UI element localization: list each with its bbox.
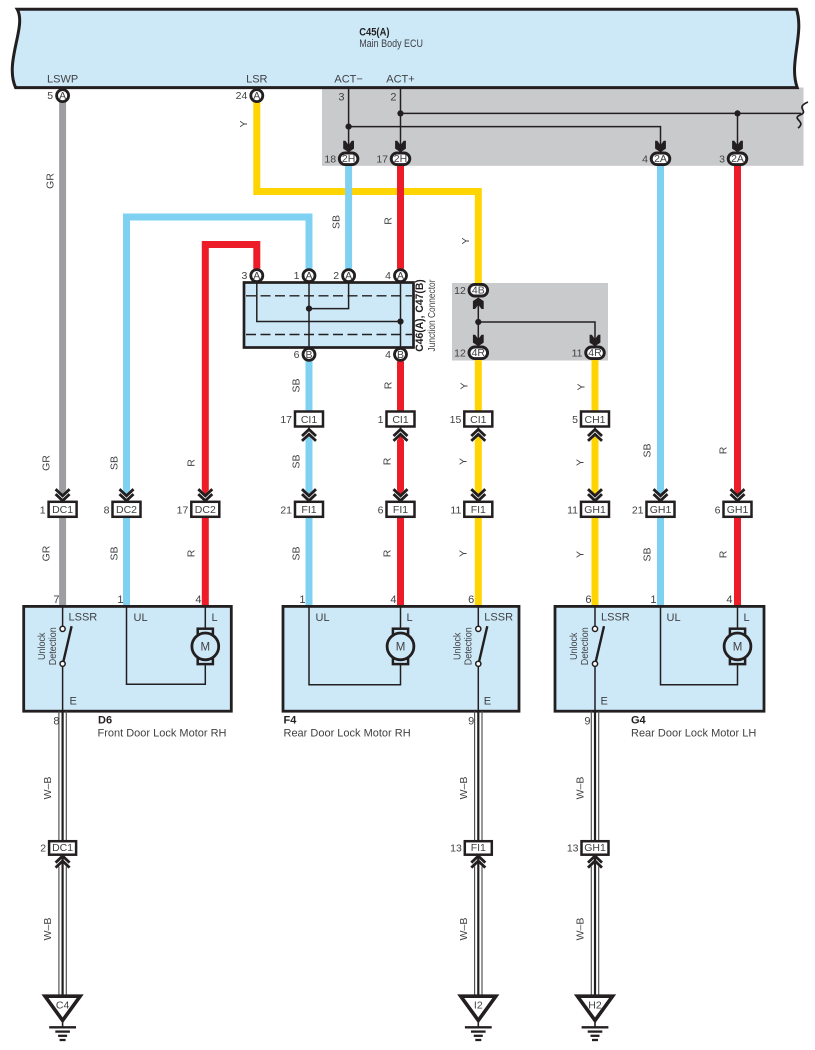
svg-text:A: A xyxy=(59,90,66,102)
connector chevrons 17 CI1 xyxy=(306,436,313,441)
wire W-B from 13 GH1 to ground H2 xyxy=(591,867,598,997)
svg-text:LSSR: LSSR xyxy=(484,612,513,624)
wire Y from 11 FI1 to motor F4 xyxy=(475,516,482,606)
svg-text:SB: SB xyxy=(642,443,654,457)
wire 4B to 4R vertical xyxy=(477,301,479,340)
svg-text:DC2: DC2 xyxy=(116,504,137,516)
svg-text:4: 4 xyxy=(642,153,648,165)
svg-text:DC2: DC2 xyxy=(195,504,216,516)
junction internal wire 4A to 4B xyxy=(400,284,402,347)
svg-text:15: 15 xyxy=(450,414,462,426)
svg-text:Y: Y xyxy=(574,551,586,558)
connector arrow into 4 2A xyxy=(655,141,666,153)
connector arrow into 12 4B xyxy=(473,298,484,310)
connector 8 DC2 xyxy=(104,502,141,517)
connector 1 CI1 xyxy=(378,412,415,427)
wire R from DC2 to motor D6 xyxy=(202,516,209,606)
svg-text:B: B xyxy=(397,349,404,361)
harness shading 2H/2A connector area xyxy=(322,88,804,166)
wire ACT- branch to 4 2A xyxy=(349,127,661,147)
ECU block C45(A) Main Body ECU xyxy=(12,9,799,87)
svg-text:1: 1 xyxy=(40,504,46,516)
svg-text:A: A xyxy=(305,270,312,282)
ECU pin 5 A LSWP xyxy=(47,90,68,103)
unlock detection switch F4 xyxy=(476,606,488,711)
ground I2 xyxy=(461,996,496,1040)
connector 5 CH1 xyxy=(572,412,609,427)
junction pin 1 A xyxy=(294,270,315,283)
svg-text:21: 21 xyxy=(280,504,292,516)
svg-text:L: L xyxy=(744,612,750,624)
svg-text:Y: Y xyxy=(574,459,586,466)
connector 4 2A xyxy=(642,153,670,165)
svg-text:ACT+: ACT+ xyxy=(386,74,414,86)
svg-text:3: 3 xyxy=(719,153,725,165)
svg-text:C46(A), C47(B): C46(A), C47(B) xyxy=(414,279,426,352)
svg-text:Y: Y xyxy=(238,120,250,127)
wire W-B from motor E to 13 FI1 xyxy=(475,711,482,854)
svg-text:6: 6 xyxy=(585,594,591,606)
svg-text:Rear Door Lock Motor RH: Rear Door Lock Motor RH xyxy=(284,728,411,740)
svg-text:3: 3 xyxy=(241,270,247,282)
unlock detection switch G4 xyxy=(592,606,604,711)
wire SB from 18 2H to junction 2A xyxy=(345,165,352,269)
connector chevrons 1 DC1 xyxy=(59,490,66,495)
svg-text:2: 2 xyxy=(390,91,396,103)
svg-text:ACT−: ACT− xyxy=(334,74,362,86)
wire SB from 17 CI1 to 21 FI1 xyxy=(306,440,313,490)
svg-text:LSSR: LSSR xyxy=(69,612,98,624)
svg-text:DC1: DC1 xyxy=(52,504,73,516)
svg-text:UnlockDetection: UnlockDetection xyxy=(36,627,59,665)
svg-text:4: 4 xyxy=(726,594,732,606)
junction on ACT- wire xyxy=(346,124,352,130)
connector arrow into 11 4R xyxy=(590,335,601,347)
svg-text:9: 9 xyxy=(468,716,474,728)
connector 15 CI1 xyxy=(450,412,493,427)
svg-text:2: 2 xyxy=(333,270,339,282)
wire Y from 12 4R to 15 CI1 xyxy=(475,360,482,412)
connector 21 FI1 xyxy=(280,502,323,517)
svg-text:8: 8 xyxy=(104,504,110,516)
wire R from 6 FI1 to motor F4 xyxy=(397,516,404,606)
connector chevrons 11 FI1 xyxy=(475,490,482,495)
wire break squiggle at right edge xyxy=(797,102,808,128)
svg-text:Junction Connector: Junction Connector xyxy=(426,279,438,351)
svg-text:W–B: W–B xyxy=(575,918,587,941)
wire W-B from 13 FI1 to ground I2 xyxy=(475,867,482,997)
svg-text:2A: 2A xyxy=(654,153,667,165)
wire SB from 21 FI1 to motor F4 xyxy=(306,516,313,606)
junction pin 2 A xyxy=(333,270,354,283)
junction connector C46(A) C47(B) box xyxy=(244,283,414,348)
wire ACT+ pin 2 vertical xyxy=(400,88,402,147)
svg-text:C4: C4 xyxy=(56,1000,70,1012)
connector chevrons 13 FI1 xyxy=(471,856,485,863)
wire GR from DC1 to motor D6 xyxy=(59,516,66,606)
unlock detection switch D6 xyxy=(60,606,72,711)
wire R from junction 4B to 1 CI1 xyxy=(397,361,404,411)
svg-text:1: 1 xyxy=(299,594,305,606)
connector 6 FI1 xyxy=(378,502,415,517)
svg-text:LSSR: LSSR xyxy=(601,612,630,624)
svg-text:GR: GR xyxy=(45,173,57,189)
svg-text:Y: Y xyxy=(458,550,470,557)
junction connector upper dashed line xyxy=(246,295,412,297)
svg-text:11: 11 xyxy=(450,504,461,516)
svg-text:1: 1 xyxy=(650,594,656,606)
motor M D6 xyxy=(192,629,219,664)
svg-text:FI1: FI1 xyxy=(393,504,408,516)
svg-text:B: B xyxy=(305,349,312,361)
svg-text:12: 12 xyxy=(454,347,466,359)
svg-text:2H: 2H xyxy=(394,153,407,165)
wire Y from 5 CH1 to 11 GH1 xyxy=(592,440,599,490)
svg-text:A: A xyxy=(345,270,352,282)
svg-text:24: 24 xyxy=(236,90,248,102)
svg-text:1: 1 xyxy=(378,414,384,426)
svg-text:5: 5 xyxy=(47,90,53,102)
svg-text:R: R xyxy=(382,549,394,557)
svg-text:1: 1 xyxy=(117,594,123,606)
svg-text:Y: Y xyxy=(460,237,472,244)
svg-text:R: R xyxy=(718,550,730,558)
svg-text:Main Body ECU: Main Body ECU xyxy=(359,38,423,50)
svg-text:E: E xyxy=(70,696,77,708)
svg-text:CI1: CI1 xyxy=(301,414,318,426)
svg-text:17: 17 xyxy=(280,414,292,426)
junction on ACT+ wire xyxy=(397,110,403,116)
svg-text:E: E xyxy=(484,696,491,708)
connector 17 DC2 xyxy=(177,502,220,517)
svg-text:GH1: GH1 xyxy=(584,842,606,854)
svg-text:SB: SB xyxy=(291,454,303,468)
wire R from 6 GH1 to motor G4 xyxy=(734,516,741,606)
svg-text:E: E xyxy=(601,696,608,708)
svg-text:FI1: FI1 xyxy=(471,842,486,854)
svg-text:UL: UL xyxy=(667,612,681,624)
svg-text:SB: SB xyxy=(109,546,121,560)
svg-text:LSWP: LSWP xyxy=(47,74,78,86)
svg-text:4R: 4R xyxy=(588,347,602,359)
svg-text:4: 4 xyxy=(385,270,391,282)
wire F4 UL to motor xyxy=(309,606,401,684)
junction pin 3 A xyxy=(241,270,262,283)
wire SB from 21 GH1 to motor G4 xyxy=(657,516,664,606)
wire R branch from junction 3A to DC2 xyxy=(205,245,256,491)
wire D6 UL to motor xyxy=(127,606,206,684)
svg-text:21: 21 xyxy=(632,504,644,516)
svg-text:Y: Y xyxy=(458,458,470,465)
connector chevrons 8 DC2 xyxy=(123,490,130,495)
svg-text:R: R xyxy=(186,459,198,467)
wire G4 L to motor xyxy=(737,606,739,629)
svg-text:17: 17 xyxy=(177,504,189,516)
motor block G4 Rear Door Lock Motor LH xyxy=(555,606,764,711)
svg-text:UL: UL xyxy=(134,612,148,624)
svg-text:F4: F4 xyxy=(284,715,298,727)
svg-text:Y: Y xyxy=(459,382,471,389)
wire branch to 11 4R xyxy=(478,322,595,340)
connector 17 CI1 xyxy=(280,412,323,427)
svg-text:7: 7 xyxy=(53,594,59,606)
wire D6 L to motor xyxy=(204,606,206,629)
svg-text:6: 6 xyxy=(468,594,474,606)
svg-text:G4: G4 xyxy=(631,715,647,727)
connector 1 DC1 xyxy=(40,502,77,517)
wire F4 L to motor xyxy=(400,606,402,629)
connector chevrons 17 DC2 xyxy=(202,490,209,495)
wire Y from 15 CI1 to 11 FI1 xyxy=(475,440,482,490)
svg-text:13: 13 xyxy=(450,842,462,854)
svg-text:11: 11 xyxy=(567,504,578,516)
harness shading 4B/4R connector area xyxy=(452,283,608,361)
junction connector lower dashed line xyxy=(246,334,412,336)
svg-text:SB: SB xyxy=(109,456,121,470)
connector arrow into 17 2H xyxy=(395,141,406,153)
svg-text:18: 18 xyxy=(324,153,336,165)
svg-text:A: A xyxy=(253,90,260,102)
svg-text:A: A xyxy=(397,270,404,282)
svg-text:W–B: W–B xyxy=(458,777,470,800)
svg-text:UnlockDetection: UnlockDetection xyxy=(568,627,591,665)
connector 3 2A xyxy=(719,153,747,165)
svg-text:R: R xyxy=(382,457,394,465)
svg-text:2H: 2H xyxy=(342,153,355,165)
connector chevrons 6 GH1 xyxy=(734,490,741,495)
wire Y from LSR to 12 4B xyxy=(257,102,479,284)
svg-text:CI1: CI1 xyxy=(392,414,409,426)
wire ACT+ bus horizontal xyxy=(401,112,802,114)
svg-text:4R: 4R xyxy=(472,347,486,359)
wire W-B from motor E to 2 DC1 xyxy=(59,711,66,854)
connector 11 GH1 xyxy=(567,502,609,517)
svg-text:I2: I2 xyxy=(474,1000,483,1012)
wire R from 3 2A to 6 GH1 xyxy=(734,165,741,490)
svg-text:DC1: DC1 xyxy=(52,842,73,854)
svg-text:SB: SB xyxy=(331,215,343,229)
svg-text:C45(A): C45(A) xyxy=(359,27,390,39)
svg-text:4: 4 xyxy=(385,349,391,361)
ground H2 xyxy=(577,996,612,1040)
wire W-B stripe through connector 13 GH1 xyxy=(594,854,596,866)
svg-text:UnlockDetection: UnlockDetection xyxy=(452,627,475,665)
connector 11 4R xyxy=(572,347,605,359)
svg-text:FI1: FI1 xyxy=(301,504,316,516)
svg-text:6: 6 xyxy=(378,504,384,516)
svg-text:SB: SB xyxy=(642,547,654,561)
junction dot 1A-2A xyxy=(306,306,312,312)
svg-text:8: 8 xyxy=(53,716,59,728)
svg-text:5: 5 xyxy=(572,414,578,426)
svg-text:1: 1 xyxy=(294,270,300,282)
wire SB branch from junction 1A to DC2 xyxy=(127,217,310,490)
svg-text:M: M xyxy=(201,642,211,654)
svg-text:6: 6 xyxy=(294,349,300,361)
junction internal wire 1A to 6B xyxy=(308,284,310,347)
wire SB from junction 6B to 17 CI1 xyxy=(306,361,313,411)
junction internal wire 3A to 4A xyxy=(257,284,401,322)
wire SB from 4 2A to 21 GH1 xyxy=(657,165,664,490)
connector chevrons 11 GH1 xyxy=(592,490,599,495)
junction on ACT+ bus xyxy=(734,110,740,116)
connector 13 FI1 xyxy=(450,841,492,855)
motor M G4 xyxy=(724,629,751,664)
svg-text:W–B: W–B xyxy=(42,918,54,941)
connector chevrons 5 CH1 xyxy=(592,436,599,441)
svg-text:4B: 4B xyxy=(472,285,485,297)
junction pin 4 B xyxy=(385,348,406,361)
svg-text:3: 3 xyxy=(338,91,344,103)
svg-text:R: R xyxy=(383,381,395,389)
svg-text:4: 4 xyxy=(195,594,201,606)
connector chevrons 21 FI1 xyxy=(306,490,313,495)
svg-text:R: R xyxy=(383,217,395,225)
connector 21 GH1 xyxy=(632,502,675,517)
svg-text:Front Door Lock Motor RH: Front Door Lock Motor RH xyxy=(98,728,227,740)
svg-text:13: 13 xyxy=(567,842,579,854)
wire ACT- pin 3 vertical xyxy=(348,88,350,147)
svg-text:2A: 2A xyxy=(731,153,744,165)
connector 11 FI1 xyxy=(450,502,492,517)
svg-text:M: M xyxy=(396,642,406,654)
svg-text:CI1: CI1 xyxy=(470,414,487,426)
junction internal wire 2A to 1A xyxy=(309,284,349,309)
wire W-B from motor E to 13 GH1 xyxy=(591,711,598,854)
wire Y from 11 GH1 to motor G4 xyxy=(592,516,599,606)
svg-text:L: L xyxy=(407,612,413,624)
connector arrow into 12 4R xyxy=(473,335,484,347)
svg-text:UL: UL xyxy=(316,612,330,624)
svg-text:D6: D6 xyxy=(98,715,112,727)
connector 13 GH1 xyxy=(567,841,609,855)
connector 2 DC1 xyxy=(40,841,76,855)
svg-text:SB: SB xyxy=(291,546,303,560)
connector 18 2H xyxy=(324,153,357,165)
wire R from 1 CI1 to 6 FI1 xyxy=(397,440,404,490)
svg-text:GR: GR xyxy=(41,545,53,561)
svg-text:4: 4 xyxy=(390,594,396,606)
svg-text:CH1: CH1 xyxy=(584,414,605,426)
svg-text:A: A xyxy=(253,270,260,282)
svg-text:FI1: FI1 xyxy=(471,504,486,516)
svg-text:M: M xyxy=(733,642,743,654)
svg-text:L: L xyxy=(212,612,218,624)
wire W-B stripe through connector 2 DC1 xyxy=(61,854,63,866)
wire G4 UL to motor xyxy=(661,606,738,684)
motor block D6 Front Door Lock Motor RH xyxy=(24,606,232,711)
svg-text:2: 2 xyxy=(40,842,46,854)
wire Y from 11 4R to 5 CH1 xyxy=(592,360,599,412)
junction dot 3A-4A xyxy=(397,318,403,324)
ground C4 xyxy=(45,996,80,1040)
wire branch to 3 2A xyxy=(737,113,739,146)
svg-text:R: R xyxy=(186,549,198,557)
svg-text:Rear Door Lock Motor LH: Rear Door Lock Motor LH xyxy=(631,728,756,740)
motor M F4 xyxy=(387,629,414,664)
wire SB from DC2 to motor D6 xyxy=(123,516,130,606)
svg-text:R: R xyxy=(718,446,730,454)
svg-text:9: 9 xyxy=(584,716,590,728)
junction pin 4 A xyxy=(385,270,406,283)
svg-text:W–B: W–B xyxy=(42,777,54,800)
wire W-B from 2 DC1 to ground C4 xyxy=(59,867,66,997)
svg-text:GR: GR xyxy=(41,455,53,471)
connector 12 4B xyxy=(454,284,487,296)
ECU pin 24 A LSR xyxy=(236,90,263,103)
connector chevrons 21 GH1 xyxy=(657,490,664,495)
svg-text:GH1: GH1 xyxy=(650,504,672,516)
connector arrow into 18 2H xyxy=(343,141,354,153)
connector chevrons 6 FI1 xyxy=(397,490,404,495)
svg-text:Y: Y xyxy=(575,383,587,390)
connector chevrons 2 DC1 xyxy=(56,856,70,863)
svg-text:GH1: GH1 xyxy=(727,504,749,516)
motor block F4 Rear Door Lock Motor RH xyxy=(283,606,519,711)
svg-text:W–B: W–B xyxy=(458,918,470,941)
svg-text:H2: H2 xyxy=(588,1000,602,1012)
svg-text:W–B: W–B xyxy=(575,777,587,800)
connector arrow into 3 2A xyxy=(732,141,743,153)
connector 6 GH1 xyxy=(715,502,752,517)
connector chevrons 1 CI1 xyxy=(397,436,404,441)
wire GR from LSWP to DC1 xyxy=(59,102,66,491)
connector chevrons 13 GH1 xyxy=(588,856,602,863)
connector 17 2H xyxy=(376,153,409,165)
wire W-B stripe through connector 13 FI1 xyxy=(477,854,479,866)
junction dot 4B branch xyxy=(475,319,481,325)
svg-text:SB: SB xyxy=(291,378,303,392)
junction pin 6 B xyxy=(294,348,315,361)
svg-text:17: 17 xyxy=(376,153,388,165)
connector chevrons 15 CI1 xyxy=(475,436,482,441)
svg-text:6: 6 xyxy=(715,504,721,516)
connector 12 4R xyxy=(454,347,487,359)
svg-text:12: 12 xyxy=(454,285,466,297)
svg-text:11: 11 xyxy=(572,347,583,359)
svg-text:LSR: LSR xyxy=(246,74,267,86)
svg-text:GH1: GH1 xyxy=(584,504,606,516)
wire R from 17 2H to junction 4A xyxy=(397,165,404,269)
